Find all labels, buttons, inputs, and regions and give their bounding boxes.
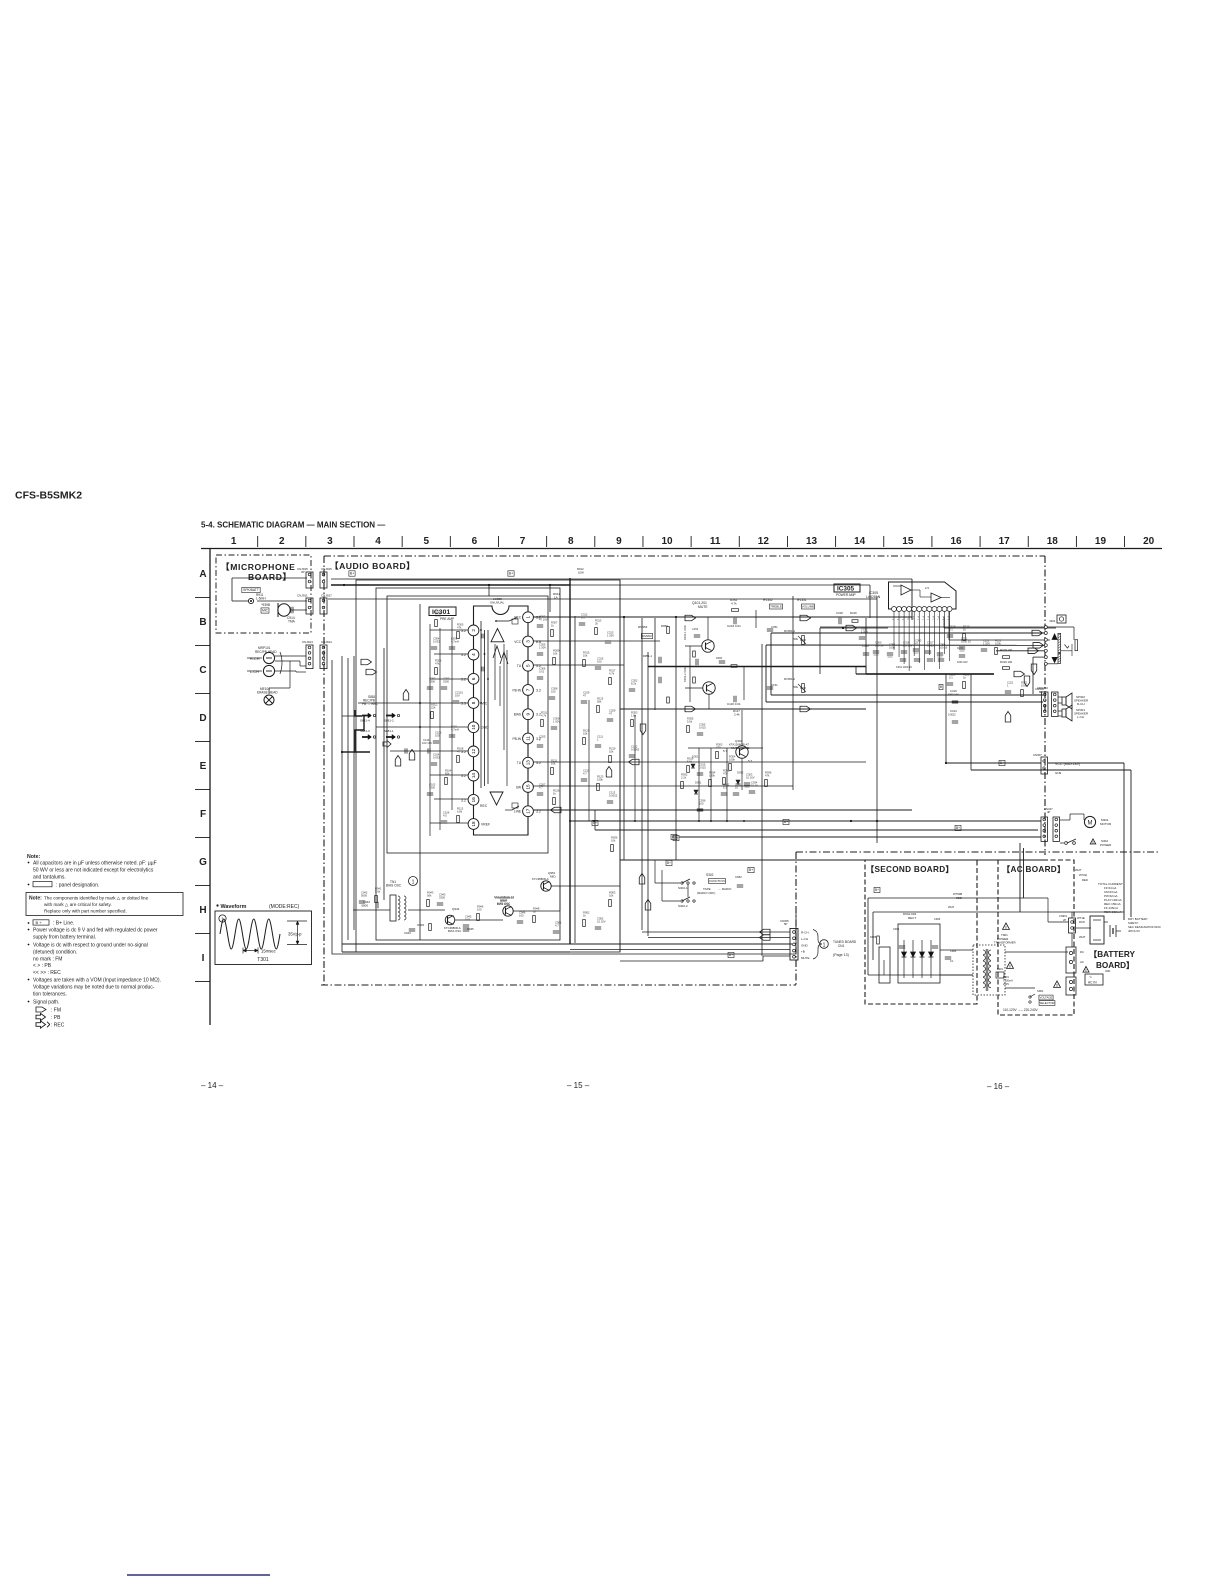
transistor Q951 bbox=[541, 881, 551, 891]
svg-text:C945: C945 bbox=[467, 927, 474, 931]
grid row tick bbox=[195, 933, 210, 935]
ac connector bbox=[1066, 947, 1076, 973]
svg-text:RECT: RECT bbox=[908, 916, 916, 920]
svg-text:CNJ914: CNJ914 bbox=[302, 640, 313, 644]
bias wires bbox=[353, 909, 390, 911]
svg-text:14: 14 bbox=[471, 773, 476, 779]
signal arrow up 2 bbox=[409, 750, 415, 761]
IC305 pin 2 bbox=[897, 607, 902, 612]
svg-text:(MODE:REC): (MODE:REC) bbox=[269, 904, 300, 910]
circled 1 bias bbox=[409, 877, 418, 886]
wire to jack top bbox=[820, 627, 888, 629]
second board bottom wire bbox=[868, 974, 973, 976]
IC305 pin 9 bbox=[932, 607, 937, 612]
svg-text:50k: 50k bbox=[793, 685, 798, 689]
svg-text:B+: B+ bbox=[729, 953, 733, 957]
svg-text:7: 7 bbox=[526, 688, 531, 691]
wires battery top bbox=[1104, 919, 1124, 921]
svg-text:8: 8 bbox=[568, 536, 574, 547]
notes panel designation bbox=[28, 884, 30, 886]
svg-text:R353-2 150k: R353-2 150k bbox=[683, 666, 687, 682]
IC305 pin 4 bbox=[907, 607, 912, 612]
svg-text:CNJ917: CNJ917 bbox=[321, 594, 332, 598]
rv351 arrows bbox=[798, 636, 806, 644]
svg-text:– 14 –: – 14 – bbox=[201, 1081, 224, 1090]
head arrows bbox=[266, 657, 272, 659]
svg-text:REC: REC bbox=[514, 616, 521, 620]
svg-text:100k: 100k bbox=[729, 757, 735, 761]
capacitor C216 bbox=[733, 618, 735, 624]
svg-text:POWER: POWER bbox=[1100, 843, 1112, 847]
notes pb arrow bbox=[36, 1013, 46, 1020]
tuner section border horizontal bbox=[796, 851, 1160, 853]
svg-text:C311: C311 bbox=[957, 646, 964, 650]
svg-text:BIAS OSC: BIAS OSC bbox=[386, 884, 402, 888]
waveform title bbox=[216, 904, 218, 906]
svg-text:D931: D931 bbox=[695, 781, 702, 785]
grid row tick bbox=[195, 645, 210, 647]
svg-text:S881-2: S881-2 bbox=[384, 719, 394, 723]
svg-text:1000 10V: 1000 10V bbox=[957, 661, 968, 664]
IC301 body bbox=[474, 606, 529, 835]
svg-text:5600: 5600 bbox=[361, 903, 368, 907]
wire bus y579 bbox=[331, 578, 912, 580]
wire B+ bus top thick bbox=[331, 584, 570, 586]
svg-text:: B+ Line.: : B+ Line. bbox=[53, 921, 74, 927]
svg-text:CFS-B5SMK2: CFS-B5SMK2 bbox=[15, 490, 82, 502]
svg-text:J301: J301 bbox=[1049, 619, 1056, 623]
svg-text:TU: TU bbox=[517, 761, 522, 765]
wire top right to IC305 bbox=[869, 585, 871, 618]
svg-text:10k: 10k bbox=[583, 653, 588, 657]
svg-text:2: 2 bbox=[471, 629, 476, 632]
audio board border top bbox=[324, 555, 1045, 557]
wire cn901 bbox=[1071, 912, 1073, 918]
svg-text:7: 7 bbox=[520, 536, 526, 547]
svg-text:3: 3 bbox=[526, 640, 531, 643]
mid cluster resistors bbox=[667, 627, 670, 634]
svg-text:0.1: 0.1 bbox=[581, 615, 585, 619]
svg-text:4.5: 4.5 bbox=[443, 813, 447, 817]
jack contact circles bbox=[1044, 626, 1047, 629]
svg-text:R-CH: R-CH bbox=[801, 931, 809, 935]
motor M301 bbox=[1084, 816, 1095, 827]
waveform circled 1 bbox=[219, 915, 226, 922]
notes signal path bbox=[28, 1001, 30, 1003]
svg-text:47k: 47k bbox=[435, 661, 440, 665]
svg-text:9: 9 bbox=[616, 536, 622, 547]
label B+ func bbox=[666, 860, 672, 865]
svg-text:1.4: 1.4 bbox=[911, 616, 915, 620]
svg-text:TREBLE: TREBLE bbox=[770, 605, 782, 609]
wire drop x489 bbox=[488, 585, 490, 596]
svg-text:1: 1 bbox=[526, 615, 531, 618]
svg-text:11: 11 bbox=[526, 736, 531, 741]
switch S881-1 bbox=[386, 736, 395, 738]
svg-text:17: 17 bbox=[526, 808, 531, 814]
svg-text:REC: REC bbox=[480, 804, 488, 808]
grid frame top rule bbox=[201, 548, 1162, 550]
wires ac right bbox=[1076, 927, 1091, 929]
svg-text:S302-2: S302-2 bbox=[678, 904, 688, 908]
svg-text:1.4: 1.4 bbox=[896, 616, 900, 620]
label B+ tun bbox=[728, 952, 734, 957]
wire line bus 2 bbox=[620, 708, 866, 710]
svg-text:B+: B+ bbox=[667, 861, 671, 865]
IC305 opamp triangle 2 bbox=[931, 593, 941, 602]
IC305 pin 5 bbox=[912, 607, 917, 612]
IC301 pin 10 bbox=[468, 722, 479, 733]
svg-text:TRANSFORMER: TRANSFORMER bbox=[994, 941, 1016, 945]
diode D903 bbox=[921, 940, 923, 978]
svg-text:3: 3 bbox=[327, 536, 333, 547]
label B+ bias bbox=[748, 867, 754, 872]
signal arrow S881 down bbox=[383, 741, 391, 748]
label B+ top mid bbox=[508, 571, 514, 576]
svg-text:100k: 100k bbox=[597, 777, 603, 781]
svg-text:10: 10 bbox=[471, 724, 476, 730]
svg-text:1000: 1000 bbox=[889, 645, 895, 649]
svg-text:5: 5 bbox=[526, 664, 531, 667]
svg-text:【BATTERY: 【BATTERY bbox=[1089, 949, 1135, 959]
svg-text:1.4: 1.4 bbox=[916, 616, 920, 620]
wires S881 heavy bbox=[355, 710, 362, 716]
capacitor C904 bbox=[945, 956, 951, 958]
signal arrow S881 up bbox=[395, 756, 401, 767]
svg-text:1.4: 1.4 bbox=[926, 616, 930, 620]
svg-text:1 50V: 1 50V bbox=[983, 641, 990, 645]
svg-text:C310: C310 bbox=[862, 644, 869, 648]
svg-text:UNUSUAL: UNUSUAL bbox=[490, 600, 505, 604]
switch S881-2 bbox=[386, 715, 395, 717]
svg-text:470: 470 bbox=[723, 771, 728, 775]
svg-text:R316: R316 bbox=[850, 611, 857, 615]
svg-text:Voltages are taken with a VOM: Voltages are taken with a VOM (Input imp… bbox=[33, 978, 161, 984]
svg-text:MUTE: MUTE bbox=[801, 956, 810, 960]
svg-text:3P: 3P bbox=[301, 570, 305, 574]
svg-text:0.015: 0.015 bbox=[699, 725, 706, 729]
IC305 pin 6 bbox=[917, 607, 922, 612]
svg-text:VOLUME: VOLUME bbox=[802, 605, 815, 609]
second board border bbox=[865, 860, 977, 1004]
jack plug body bbox=[1075, 640, 1078, 651]
signal arrow FM 2 bbox=[366, 669, 377, 675]
svg-text:4.7k: 4.7k bbox=[541, 713, 547, 717]
svg-text:TU: TU bbox=[517, 664, 522, 668]
svg-text:W702(: W702( bbox=[1079, 873, 1087, 877]
svg-text:with mark △ are critical for s: with mark △ are critical for safety. bbox=[44, 902, 112, 907]
wire vertical x877 bbox=[876, 596, 878, 843]
wires function switch bbox=[654, 860, 656, 883]
signal arrow tun1 bbox=[760, 929, 771, 935]
svg-text:1.4: 1.4 bbox=[901, 616, 905, 620]
svg-text:56k: 56k bbox=[597, 699, 602, 703]
svg-text:tion tolerances.: tion tolerances. bbox=[33, 992, 67, 998]
svg-text:RED: RED bbox=[956, 896, 962, 900]
svg-text:11: 11 bbox=[710, 536, 721, 547]
svg-text:16: 16 bbox=[950, 536, 962, 547]
headphone jack body bbox=[1058, 633, 1061, 652]
IC301 opamp triangle 2 bbox=[490, 792, 503, 805]
svg-text:(Page 13): (Page 13) bbox=[833, 953, 849, 957]
svg-text:4.7: 4.7 bbox=[583, 771, 587, 775]
grid row tick bbox=[195, 837, 210, 839]
wire B+ bus top thin bbox=[570, 584, 870, 586]
svg-text:100: 100 bbox=[519, 913, 524, 917]
svg-text:14: 14 bbox=[854, 536, 866, 547]
Q303 surround wires bbox=[688, 747, 763, 749]
svg-text:5.6k: 5.6k bbox=[375, 889, 381, 893]
svg-text:4.7mH: 4.7mH bbox=[451, 639, 459, 643]
wire vcc bbox=[946, 762, 1041, 764]
svg-text:47: 47 bbox=[583, 693, 586, 697]
svg-text:RV351: RV351 bbox=[797, 598, 807, 602]
label B+ motor bbox=[955, 825, 961, 830]
svg-text:18: 18 bbox=[471, 821, 476, 827]
IC301 pin 2 bbox=[468, 625, 479, 636]
transformer T901 dotted box bbox=[973, 945, 1005, 995]
vertical arrows down bbox=[1031, 664, 1037, 675]
IC301 pin 16 bbox=[468, 794, 479, 805]
wire vcc2 bbox=[971, 769, 1131, 771]
treble caps bbox=[767, 628, 773, 630]
svg-text:16: 16 bbox=[471, 797, 476, 803]
svg-text:S881-1: S881-1 bbox=[384, 729, 394, 733]
IC301 pin 3 bbox=[523, 636, 534, 647]
svg-text:12: 12 bbox=[758, 536, 770, 547]
svg-text:470: 470 bbox=[716, 745, 721, 749]
svg-text:8.2k: 8.2k bbox=[631, 681, 637, 685]
signal arrow mid 3 bbox=[685, 706, 696, 712]
microphone MIC901 bbox=[278, 604, 290, 616]
IC301 pin 4 bbox=[468, 649, 479, 660]
waveform measure vpp bbox=[287, 920, 307, 922]
svg-text:L-CH: L-CH bbox=[801, 937, 808, 941]
svg-text:R945: R945 bbox=[417, 923, 424, 927]
signal arrow mid 2 bbox=[800, 615, 811, 621]
svg-text:TUNED BOARD: TUNED BOARD bbox=[833, 940, 857, 944]
wire vertical x676 bbox=[675, 617, 677, 860]
wire pb bus bbox=[533, 761, 866, 763]
svg-text:3.2: 3.2 bbox=[461, 629, 466, 633]
svg-text:D932: D932 bbox=[737, 771, 744, 775]
svg-text:POWER AMP: POWER AMP bbox=[836, 593, 856, 597]
svg-text:L-CH: L-CH bbox=[250, 670, 259, 674]
svg-text:10: 10 bbox=[661, 536, 673, 547]
svg-text:0.015: 0.015 bbox=[699, 765, 706, 769]
svg-text:CN307: CN307 bbox=[1033, 753, 1042, 757]
head L-CH bbox=[263, 665, 274, 676]
IC301 pin 18 bbox=[468, 819, 479, 830]
grid column tick bbox=[883, 536, 885, 547]
diode D904 bbox=[930, 940, 932, 978]
svg-text:Note:: Note: bbox=[29, 896, 42, 902]
svg-text:RC8: RC8 bbox=[1079, 920, 1085, 924]
svg-text:【AC BOARD】: 【AC BOARD】 bbox=[1002, 864, 1066, 874]
svg-text:82k: 82k bbox=[445, 771, 450, 775]
svg-text:MOTOR: MOTOR bbox=[1100, 822, 1112, 826]
wire lower bus 2 bbox=[570, 943, 792, 945]
svg-text:0.1: 0.1 bbox=[723, 785, 727, 789]
wire y599 right run bbox=[328, 598, 877, 600]
svg-text:CNJ911: CNJ911 bbox=[297, 594, 308, 598]
connector CNJ915 right bbox=[320, 572, 327, 588]
waveform measure msec bbox=[243, 950, 258, 952]
svg-text:2P: 2P bbox=[1063, 918, 1066, 922]
IC305 pin 7 bbox=[922, 607, 927, 612]
wire drop x550 R911 bbox=[549, 585, 551, 612]
connector CN901 bbox=[1069, 918, 1076, 933]
Q303 bus dots bbox=[569, 820, 571, 822]
svg-text:R951-1: R951-1 bbox=[643, 654, 653, 658]
svg-text:WHT: WHT bbox=[1075, 868, 1082, 872]
svg-text:50 WV or less are not indicate: 50 WV or less are not indicated except f… bbox=[33, 868, 154, 874]
svg-text:4PCS 6V: 4PCS 6V bbox=[1128, 929, 1140, 933]
svg-text:C: C bbox=[199, 665, 206, 676]
svg-text:CN1: CN1 bbox=[838, 944, 845, 948]
headphone jack triangle down bbox=[1052, 657, 1057, 662]
speaker wires bus bbox=[771, 632, 1044, 634]
wires right top bbox=[1044, 855, 1046, 860]
svg-text:22k: 22k bbox=[431, 705, 436, 709]
IC301 pin 15 bbox=[523, 782, 534, 793]
svg-text:D905: D905 bbox=[870, 935, 877, 939]
svg-text:C253: C253 bbox=[692, 627, 699, 631]
IC301 opamp triangle 1 bbox=[491, 629, 504, 642]
wire right bus r14 bbox=[940, 673, 994, 675]
svg-text:10W: 10W bbox=[578, 570, 584, 574]
svg-text:5.6k: 5.6k bbox=[687, 719, 693, 723]
signal arrow up 1 bbox=[403, 690, 409, 701]
IC301 pin 6 bbox=[468, 673, 479, 684]
svg-text:10k: 10k bbox=[609, 749, 614, 753]
grid frame left rule bbox=[209, 549, 211, 1026]
svg-text:Voltage is dc with respect to: Voltage is dc with respect to ground und… bbox=[33, 943, 148, 949]
speaker connector CNJ102 right bbox=[1052, 692, 1059, 716]
svg-text:C314: C314 bbox=[950, 709, 957, 713]
svg-text:SPK/BATT: SPK/BATT bbox=[243, 588, 259, 592]
svg-text:9: 9 bbox=[526, 712, 531, 715]
svg-text:0.033: 0.033 bbox=[433, 755, 440, 759]
svg-text:SELECTOR: SELECTOR bbox=[1039, 1001, 1054, 1005]
grid column tick bbox=[305, 536, 307, 547]
connector CNJ914 right bbox=[320, 645, 327, 669]
grid column tick bbox=[257, 536, 259, 547]
audio board border left bbox=[323, 556, 325, 985]
svg-text:1: 1 bbox=[823, 942, 826, 948]
svg-text:0.1: 0.1 bbox=[950, 959, 954, 963]
svg-text:3300: 3300 bbox=[439, 895, 445, 899]
svg-text:D: D bbox=[199, 713, 206, 724]
svg-text:3300 16V: 3300 16V bbox=[948, 694, 959, 697]
motor connector left bbox=[1041, 817, 1048, 841]
svg-text:6: 6 bbox=[471, 677, 476, 680]
svg-text:16V: 16V bbox=[455, 693, 460, 697]
svg-text:S901: S901 bbox=[1037, 989, 1044, 993]
svg-text:2.2k: 2.2k bbox=[681, 775, 687, 779]
svg-text:C905: C905 bbox=[893, 927, 900, 931]
IC301 left pin drops bbox=[430, 629, 468, 631]
svg-text:18: 18 bbox=[1047, 536, 1059, 547]
svg-text:WHT: WHT bbox=[1079, 935, 1086, 939]
svg-text:All capacitors are in µF unles: All capacitors are in µF unless otherwis… bbox=[33, 861, 157, 867]
svg-text:Replace only with part number: Replace only with part number specified. bbox=[44, 909, 127, 914]
svg-text:: panel designation.: : panel designation. bbox=[56, 883, 99, 889]
wire motor bbox=[1060, 819, 1070, 821]
battery symbol bbox=[1109, 925, 1111, 937]
notes b+ line bbox=[28, 922, 30, 924]
wire lower bus bbox=[620, 859, 1045, 861]
IC301 label box bbox=[429, 607, 456, 616]
grid column tick bbox=[642, 536, 644, 547]
audio inner box 2 bbox=[376, 588, 560, 940]
svg-text:C351: C351 bbox=[771, 625, 778, 629]
svg-text:4.7mH: 4.7mH bbox=[451, 727, 459, 731]
svg-text:2.9: 2.9 bbox=[925, 586, 929, 590]
svg-text:10k: 10k bbox=[551, 761, 556, 765]
switch S302-1 bbox=[681, 882, 683, 884]
svg-text:100k: 100k bbox=[709, 773, 715, 777]
svg-text:0.1: 0.1 bbox=[949, 675, 953, 679]
grid row tick bbox=[195, 789, 210, 791]
svg-text:BIAS OSC: BIAS OSC bbox=[448, 929, 461, 933]
IC301 pin 13 bbox=[523, 757, 534, 768]
svg-text:1.4: 1.4 bbox=[921, 616, 925, 620]
svg-text:1A: 1A bbox=[554, 595, 558, 599]
grid column tick bbox=[594, 536, 596, 547]
IC301 left outer drops bbox=[429, 624, 431, 836]
wire IC305 out right bbox=[944, 627, 1056, 629]
svg-text:0.0022: 0.0022 bbox=[948, 714, 956, 717]
svg-text:13: 13 bbox=[526, 760, 531, 766]
svg-text:47: 47 bbox=[915, 641, 918, 645]
svg-text:I: I bbox=[202, 953, 205, 964]
svg-text:GN9: GN9 bbox=[1055, 771, 1062, 775]
svg-text:SW: SW bbox=[516, 785, 521, 789]
svg-text:5.6k: 5.6k bbox=[687, 759, 693, 763]
svg-text:A: A bbox=[199, 569, 206, 580]
audio inner box 3 bbox=[356, 580, 620, 952]
svg-text:C904: C904 bbox=[950, 949, 957, 953]
svg-text:AC: AC bbox=[1080, 960, 1084, 964]
svg-text:L-5mH: L-5mH bbox=[256, 597, 266, 601]
IC301 switch 2 bbox=[505, 809, 512, 811]
grid column tick bbox=[1027, 536, 1029, 547]
wire mid bus bbox=[648, 666, 866, 668]
svg-text:35Vp-p: 35Vp-p bbox=[288, 932, 302, 937]
svg-text:CN901: CN901 bbox=[1059, 914, 1068, 918]
svg-text:– 16 –: – 16 – bbox=[987, 1082, 1010, 1091]
grid column tick bbox=[835, 536, 837, 547]
transistor Q942 bbox=[445, 915, 455, 925]
svg-text:50k: 50k bbox=[793, 637, 798, 641]
svg-text:1.4: 1.4 bbox=[942, 616, 946, 620]
svg-text:4: 4 bbox=[471, 653, 476, 656]
wire pin5 tu bbox=[533, 664, 624, 666]
svg-text:The components identified by m: The components identified by mark △ or d… bbox=[44, 896, 149, 901]
svg-text:BOARD】: BOARD】 bbox=[1096, 960, 1134, 970]
svg-text:DM202: DM202 bbox=[642, 634, 652, 638]
wire vertical x575 bbox=[574, 616, 576, 943]
svg-text:WHT: WHT bbox=[948, 905, 955, 909]
switch S881-4 bbox=[362, 715, 371, 717]
capacitor C361 C362 cluster bbox=[900, 658, 906, 660]
switch S302-2 bbox=[681, 900, 683, 902]
grid column tick bbox=[979, 536, 981, 547]
svg-text:R353-1 150k: R353-1 150k bbox=[683, 624, 687, 640]
IC305 pin 12 bbox=[947, 607, 952, 612]
signal arrow tun2 bbox=[760, 935, 771, 941]
